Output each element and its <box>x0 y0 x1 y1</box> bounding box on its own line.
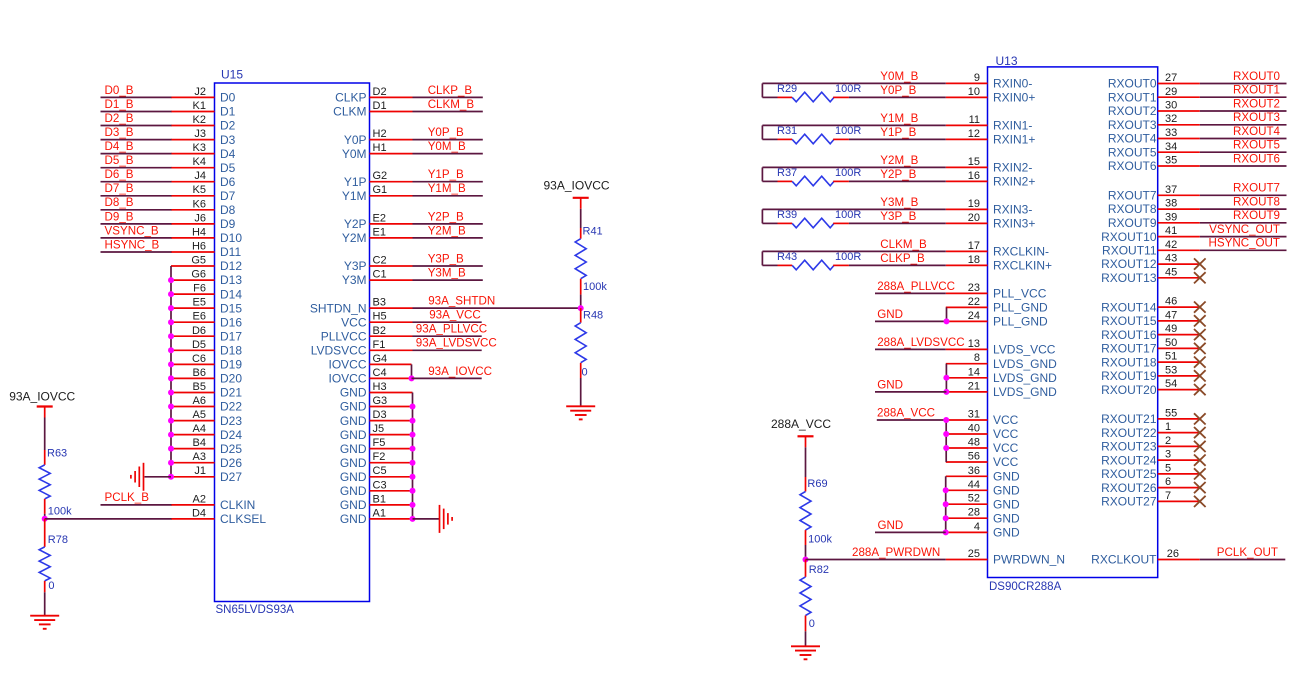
svg-text:K1: K1 <box>193 100 206 112</box>
U15 pin K6 (D8) <box>171 198 236 217</box>
svg-text:37: 37 <box>1165 184 1177 196</box>
wire R41 to junction <box>580 295 582 309</box>
no-connect X on pin 54 <box>1194 384 1206 395</box>
U13 pin 11 (RXIN1-) <box>946 114 1033 133</box>
U13 pin 19 (RXIN3-) <box>946 198 1033 217</box>
U15 pin D5 (D18) <box>171 339 242 358</box>
wire R69 to junction <box>805 545 807 560</box>
svg-text:29: 29 <box>1165 86 1177 98</box>
resistor R43 100R <box>762 251 861 270</box>
svg-text:30: 30 <box>1165 100 1177 112</box>
svg-text:RXCLKOUT: RXCLKOUT <box>1091 553 1157 567</box>
svg-text:RXIN2-: RXIN2- <box>993 161 1032 175</box>
svg-text:PWRDWN_N: PWRDWN_N <box>993 553 1065 567</box>
wire net D6_B <box>101 181 172 183</box>
U13 pin 49 (RXOUT16) <box>1101 323 1200 342</box>
U15 pin D1 (CLKM) <box>333 100 412 119</box>
svg-text:D1: D1 <box>373 100 387 112</box>
resistor R48 0 <box>575 308 603 378</box>
svg-text:CLKSEL: CLKSEL <box>220 512 266 526</box>
U15 pin C1 (Y3M) <box>342 269 413 288</box>
svg-text:IOVCC: IOVCC <box>328 372 366 386</box>
svg-text:H5: H5 <box>373 311 387 323</box>
svg-text:R39: R39 <box>777 209 797 221</box>
resistor R69 100k <box>800 477 832 546</box>
svg-text:26: 26 <box>1167 548 1179 560</box>
svg-text:F5: F5 <box>373 437 386 449</box>
svg-text:RXOUT9: RXOUT9 <box>1108 216 1157 230</box>
U13 pin 13 (LVDS_VCC) <box>946 338 1056 357</box>
svg-text:H2: H2 <box>373 128 387 140</box>
wire net D7_B <box>101 195 172 197</box>
svg-text:9: 9 <box>974 72 980 84</box>
svg-text:45: 45 <box>1165 266 1177 278</box>
U15 pin H2 (Y0P) <box>344 128 413 147</box>
wire net Y3M_B <box>762 208 945 210</box>
wire net D3_B <box>101 139 172 141</box>
U15 pin E6 (D16) <box>171 311 242 330</box>
svg-text:A6: A6 <box>193 395 206 407</box>
U15 pin C4 (IOVCC) <box>328 367 411 386</box>
no-connect X on pin 55 <box>1194 413 1206 424</box>
svg-text:RXOUT1: RXOUT1 <box>1233 84 1280 97</box>
svg-text:RXOUT25: RXOUT25 <box>1101 467 1157 481</box>
svg-text:18: 18 <box>968 254 980 266</box>
U15 pin C2 (Y3P) <box>344 255 413 274</box>
svg-text:D3: D3 <box>220 133 236 147</box>
no-connect X on pin 2 <box>1194 441 1206 452</box>
svg-text:R69: R69 <box>807 478 827 490</box>
U13 pin 56 (VCC) <box>946 451 1019 470</box>
U13 pin 3 (RXOUT24) <box>1101 449 1200 468</box>
no-connect X on pin 45 <box>1194 272 1206 283</box>
svg-text:10: 10 <box>968 86 980 98</box>
U15 pin E2 (Y2P) <box>344 212 413 231</box>
svg-text:Y0M_B: Y0M_B <box>428 140 466 153</box>
wire: U15 GND bus <box>412 393 414 519</box>
resistor R82 0 <box>800 560 829 632</box>
wire net RXOUT2 <box>1200 110 1287 112</box>
svg-text:A2: A2 <box>193 493 206 505</box>
U13 pin 47 (RXOUT15) <box>1101 309 1200 328</box>
U13 pin 22 (PLL_GND) <box>946 296 1048 315</box>
svg-text:RXOUT8: RXOUT8 <box>1233 196 1280 209</box>
svg-text:RXOUT18: RXOUT18 <box>1101 355 1157 369</box>
U13 pin 45 (RXOUT13) <box>1101 266 1200 285</box>
svg-text:RXOUT1: RXOUT1 <box>1108 91 1157 105</box>
svg-text:GND: GND <box>340 400 367 414</box>
svg-text:GND: GND <box>340 414 367 428</box>
svg-text:LVDSVCC: LVDSVCC <box>311 344 367 358</box>
svg-text:288A_PWRDWN: 288A_PWRDWN <box>852 546 940 559</box>
svg-text:RXOUT6: RXOUT6 <box>1108 159 1157 173</box>
no-connect X on pin 1 <box>1194 427 1206 438</box>
svg-text:E6: E6 <box>193 311 206 323</box>
svg-text:D5_B: D5_B <box>105 154 134 167</box>
svg-text:Y0P_B: Y0P_B <box>428 126 464 139</box>
ground symbol (left of U15) <box>131 463 144 491</box>
wire net D8_B <box>101 209 172 211</box>
U15 pin F2 (GND) <box>340 451 413 470</box>
no-connect X on pin 49 <box>1194 329 1206 340</box>
wire net D4_B <box>101 153 172 155</box>
svg-text:D7: D7 <box>220 189 236 203</box>
svg-text:RXOUT12: RXOUT12 <box>1101 257 1157 271</box>
svg-text:Y2M_B: Y2M_B <box>880 154 918 167</box>
svg-text:46: 46 <box>1165 296 1177 308</box>
svg-text:LVDS_GND: LVDS_GND <box>993 385 1057 399</box>
U15 pin G2 (Y1P) <box>344 170 413 189</box>
wire net RXOUT7 <box>1200 194 1287 196</box>
svg-text:RXIN0-: RXIN0- <box>993 77 1032 91</box>
U15 pin J1 (D27) <box>171 465 242 484</box>
wire net RXOUT6 <box>1200 165 1287 167</box>
svg-text:RXOUT4: RXOUT4 <box>1108 132 1157 146</box>
svg-text:4: 4 <box>974 521 980 533</box>
wire net Y1P_B <box>849 138 946 140</box>
U15 pin J2 (D0) <box>171 86 236 105</box>
wire: U15 unused-input bus (D12..D27 tie) <box>170 266 172 477</box>
U13 pin 48 (VCC) <box>946 437 1019 456</box>
svg-text:B6: B6 <box>193 367 206 379</box>
svg-text:D25: D25 <box>220 442 242 456</box>
svg-text:LVDS_VCC: LVDS_VCC <box>993 343 1056 357</box>
svg-text:17: 17 <box>968 240 980 252</box>
svg-text:K2: K2 <box>193 114 206 126</box>
svg-text:RXIN0+: RXIN0+ <box>993 91 1035 105</box>
svg-text:H3: H3 <box>373 381 387 393</box>
svg-text:G6: G6 <box>191 269 206 281</box>
svg-text:93A_LVDSVCC: 93A_LVDSVCC <box>416 337 497 350</box>
svg-text:Y1M_B: Y1M_B <box>880 112 918 125</box>
svg-text:D15: D15 <box>220 301 242 315</box>
U15 pin G6 (D13) <box>171 269 242 288</box>
svg-text:R78: R78 <box>48 534 68 546</box>
wire net Y0P_B <box>413 139 483 141</box>
svg-text:GND: GND <box>877 308 903 321</box>
wire power to R69 <box>805 447 807 477</box>
svg-text:31: 31 <box>968 409 980 421</box>
svg-text:RXOUT3: RXOUT3 <box>1233 111 1280 124</box>
U13 pin 35 (RXOUT6) <box>1108 155 1200 174</box>
wire net Y0M_B <box>762 82 945 84</box>
wire power to R63 <box>44 418 46 451</box>
U13 pin 8 (LVDS_GND) <box>946 352 1057 371</box>
no-connect X on pin 53 <box>1194 370 1206 381</box>
svg-text:RXOUT6: RXOUT6 <box>1233 152 1280 165</box>
svg-text:32: 32 <box>1165 113 1177 125</box>
wire R78 to ground <box>44 592 46 615</box>
U13 pin 44 (GND) <box>946 479 1020 498</box>
svg-text:RXOUT13: RXOUT13 <box>1101 271 1157 285</box>
U15 pin C5 (GND) <box>340 465 413 484</box>
U13 pin 16 (RXIN2+) <box>946 170 1036 189</box>
svg-text:B2: B2 <box>373 325 386 337</box>
svg-text:Y3P_B: Y3P_B <box>880 210 916 223</box>
U13 pin 17 (RXCLKIN-) <box>946 240 1049 259</box>
U15 pin K2 (D2) <box>171 114 236 133</box>
svg-text:22: 22 <box>968 296 980 308</box>
svg-text:100R: 100R <box>835 83 861 95</box>
U13 pin 18 (RXCLKIN+) <box>946 254 1052 273</box>
svg-text:D19: D19 <box>220 358 242 372</box>
svg-text:93A_IOVCC: 93A_IOVCC <box>9 390 75 404</box>
wire net D5_B <box>101 167 172 169</box>
svg-text:R29: R29 <box>777 83 797 95</box>
IC U15 SN65LVDS93A body <box>215 83 370 602</box>
wire net VSYNC_B <box>101 237 172 239</box>
U13 pin 10 (RXIN0+) <box>946 86 1036 105</box>
svg-text:49: 49 <box>1165 323 1177 335</box>
U13 pin 50 (RXOUT17) <box>1101 337 1200 356</box>
svg-text:15: 15 <box>968 156 980 168</box>
U13 pin 26 (RXCLKOUT) <box>1091 548 1200 567</box>
U15 pin G5 (D12) <box>171 255 242 274</box>
svg-text:100k: 100k <box>48 505 72 517</box>
wire net GND (LVDS_GND) <box>875 391 946 393</box>
svg-text:PCLK_OUT: PCLK_OUT <box>1217 546 1278 559</box>
wire to ground at pin J1/D27 <box>145 476 172 478</box>
svg-text:47: 47 <box>1165 309 1177 321</box>
svg-text:CLKM_B: CLKM_B <box>428 98 475 111</box>
svg-text:Y2P_B: Y2P_B <box>880 168 916 181</box>
junction dot at pin 24 <box>944 318 950 324</box>
wire net RXOUT4 <box>1200 138 1287 140</box>
svg-text:C2: C2 <box>373 255 387 267</box>
U13 pin 1 (RXOUT22) <box>1101 421 1200 440</box>
svg-text:RXOUT10: RXOUT10 <box>1101 230 1157 244</box>
svg-text:RXOUT23: RXOUT23 <box>1101 440 1157 454</box>
wire net 93A_VCC <box>413 321 482 323</box>
svg-text:K5: K5 <box>193 184 206 196</box>
U15 pin C6 (D19) <box>171 353 242 372</box>
wire junction to CLKSEL <box>45 518 172 520</box>
U13 pin 38 (RXOUT8) <box>1108 198 1200 217</box>
junction node 93A_SHTDN/R41/R48 <box>578 305 584 311</box>
U13 pin 39 (RXOUT9) <box>1108 211 1200 230</box>
wire R82 to ground <box>805 631 807 646</box>
svg-text:RXOUT20: RXOUT20 <box>1101 383 1157 397</box>
svg-text:D13: D13 <box>220 273 242 287</box>
junction dot at pin 52 <box>943 501 949 507</box>
svg-text:Y1M_B: Y1M_B <box>428 182 466 195</box>
junction node at R63/R78/CLKSEL <box>42 516 48 522</box>
svg-text:54: 54 <box>1165 378 1177 390</box>
junction dot at pin 21 <box>943 389 949 395</box>
U13 pin 30 (RXOUT2) <box>1108 100 1200 119</box>
svg-text:RXIN1-: RXIN1- <box>993 119 1032 133</box>
wire net Y2P_B <box>413 223 483 225</box>
svg-text:A1: A1 <box>373 507 386 519</box>
svg-text:93A_VCC: 93A_VCC <box>429 309 481 322</box>
U15 pin H3 (GND) <box>340 381 413 400</box>
wire net CLKM_B <box>762 250 945 252</box>
svg-text:Y3M_B: Y3M_B <box>428 266 466 279</box>
U15 pin A1 (GND) <box>340 507 413 526</box>
svg-text:B3: B3 <box>373 297 386 309</box>
junction dot at pin 48 <box>943 445 949 451</box>
wire net Y3P_B <box>849 222 946 224</box>
svg-text:C1: C1 <box>373 269 387 281</box>
svg-text:R31: R31 <box>777 125 797 137</box>
svg-text:100R: 100R <box>835 167 861 179</box>
svg-text:GND: GND <box>993 484 1020 498</box>
svg-text:RXCLKIN-: RXCLKIN- <box>993 245 1049 259</box>
svg-text:13: 13 <box>968 338 980 350</box>
svg-text:G5: G5 <box>191 255 206 267</box>
junction dot at pin 28 <box>943 515 949 521</box>
svg-text:D8: D8 <box>220 203 236 217</box>
svg-text:D22: D22 <box>220 400 242 414</box>
svg-text:D7_B: D7_B <box>105 182 134 195</box>
svg-text:RXIN3-: RXIN3- <box>993 203 1032 217</box>
svg-text:RXOUT9: RXOUT9 <box>1233 209 1280 222</box>
svg-text:D6_B: D6_B <box>105 168 134 181</box>
svg-text:D3_B: D3_B <box>105 126 134 139</box>
no-connect X on pin 7 <box>1194 496 1206 507</box>
svg-text:VSYNC_OUT: VSYNC_OUT <box>1209 223 1280 236</box>
ground symbol (below R78) <box>30 616 59 629</box>
U15 pin H6 (D11) <box>171 241 241 260</box>
wire net D9_B <box>101 223 172 225</box>
svg-text:40: 40 <box>968 423 980 435</box>
U15 pin B1 (GND) <box>340 493 413 512</box>
svg-text:41: 41 <box>1165 225 1177 237</box>
svg-text:RXOUT17: RXOUT17 <box>1101 342 1157 356</box>
svg-text:J3: J3 <box>194 128 206 140</box>
svg-text:D18: D18 <box>220 344 242 358</box>
U15 pin J3 (D3) <box>171 128 236 147</box>
wire net CLKP_B <box>413 96 483 98</box>
wire tying G4 to C4 <box>411 364 413 378</box>
junction node 288A_PWRDWN <box>803 557 809 563</box>
U15 pin K1 (D1) <box>171 100 236 119</box>
svg-text:VCC: VCC <box>993 413 1019 427</box>
svg-text:D14: D14 <box>220 287 242 301</box>
svg-text:GND: GND <box>993 511 1020 525</box>
svg-text:VCC: VCC <box>993 441 1019 455</box>
svg-text:K4: K4 <box>193 156 206 168</box>
svg-text:H6: H6 <box>192 241 206 253</box>
svg-text:SHTDN_N: SHTDN_N <box>310 301 367 315</box>
resistor R31 100R <box>762 125 861 144</box>
svg-text:J2: J2 <box>194 86 206 98</box>
svg-text:CLKM: CLKM <box>333 105 366 119</box>
svg-text:RXOUT27: RXOUT27 <box>1101 495 1157 509</box>
svg-text:E2: E2 <box>373 212 386 224</box>
svg-text:19: 19 <box>968 198 980 210</box>
svg-text:RXOUT7: RXOUT7 <box>1233 182 1280 195</box>
wire Y1M_B down to R31 <box>761 125 763 139</box>
svg-text:24: 24 <box>968 310 980 322</box>
wire net D0_B <box>101 96 172 98</box>
svg-text:Y0P: Y0P <box>344 133 367 147</box>
wire tying pins 36,44,52,28,4 (GND) <box>945 476 947 532</box>
wire net 288A_PLLVCC <box>875 292 946 294</box>
svg-text:R48: R48 <box>583 310 603 322</box>
svg-text:DS90CR288A: DS90CR288A <box>989 581 1062 593</box>
U13 pin 27 (RXOUT0) <box>1108 72 1200 91</box>
resistor R78 0 <box>39 519 68 593</box>
svg-text:RXOUT7: RXOUT7 <box>1108 189 1157 203</box>
power symbol 93A_IOVCC (left rail) <box>9 390 75 418</box>
U13 pin 43 (RXOUT12) <box>1101 253 1200 272</box>
svg-text:23: 23 <box>968 282 980 294</box>
svg-text:C3: C3 <box>373 479 387 491</box>
svg-text:39: 39 <box>1165 211 1177 223</box>
wire net Y3P_B <box>413 265 483 267</box>
U15 pin B4 (D25) <box>171 437 242 456</box>
wire net 93A_PLLVCC <box>413 335 482 337</box>
svg-text:GND: GND <box>340 386 367 400</box>
svg-text:RXOUT5: RXOUT5 <box>1108 145 1157 159</box>
wire net Y0M_B <box>413 153 483 155</box>
svg-text:Y2M_B: Y2M_B <box>428 224 466 237</box>
svg-text:Y0M_B: Y0M_B <box>880 70 918 83</box>
svg-text:LVDS_GND: LVDS_GND <box>993 371 1057 385</box>
U13 pin 42 (RXOUT11) <box>1102 239 1200 258</box>
no-connect X on pin 46 <box>1194 302 1206 313</box>
power symbol 93A_IOVCC (above R41) <box>544 178 610 209</box>
svg-text:RXOUT22: RXOUT22 <box>1101 426 1157 440</box>
wire R48 to ground <box>580 378 582 406</box>
wire net GND (PLL_GND) <box>875 320 947 322</box>
U13 pin 20 (RXIN3+) <box>946 212 1036 231</box>
wire net Y2M_B <box>762 166 945 168</box>
resistor R37 100R <box>762 167 861 186</box>
wire net RXOUT5 <box>1200 151 1287 153</box>
svg-text:PLL_GND: PLL_GND <box>993 315 1048 329</box>
U13 pin 28 (GND) <box>946 507 1020 526</box>
junction dots on U15 GND bus <box>410 404 416 522</box>
svg-text:GND: GND <box>993 470 1020 484</box>
U15 pin B5 (D21) <box>171 381 242 400</box>
wire net GND (pin 4) <box>875 531 946 533</box>
no-connect X on pin 47 <box>1194 315 1206 326</box>
svg-text:Y3M_B: Y3M_B <box>880 196 918 209</box>
U15 pin F6 (D14) <box>171 283 242 302</box>
svg-text:Y0M: Y0M <box>342 147 367 161</box>
wire net 288A_VCC <box>877 419 946 421</box>
svg-text:GND: GND <box>340 456 367 470</box>
U15 pin J5 (GND) <box>340 423 413 442</box>
svg-text:7: 7 <box>1165 490 1171 502</box>
resistor R29 100R <box>762 83 861 102</box>
U13 pin 21 (LVDS_GND) <box>946 380 1057 399</box>
U13 pin 24 (PLL_GND) <box>946 310 1048 329</box>
U15 pin G4 (IOVCC) <box>328 353 411 372</box>
svg-text:D1: D1 <box>220 105 236 119</box>
svg-text:2: 2 <box>1165 435 1171 447</box>
svg-text:J6: J6 <box>194 212 206 224</box>
U13 pin 53 (RXOUT19) <box>1101 364 1200 383</box>
svg-text:93A_IOVCC: 93A_IOVCC <box>428 365 492 378</box>
U15 pin K5 (D7) <box>171 184 236 203</box>
svg-text:D23: D23 <box>220 414 242 428</box>
svg-text:Y3M: Y3M <box>342 273 367 287</box>
junction dot at pin 31 <box>943 417 949 423</box>
svg-text:J1: J1 <box>194 465 206 477</box>
U15 pin B3 (SHTDN_N) <box>310 297 413 316</box>
svg-text:PLL_GND: PLL_GND <box>993 301 1048 315</box>
junction dot at pin 14 <box>943 375 949 381</box>
wire CLKM_B down to R43 <box>761 251 763 265</box>
no-connect X on pin 5 <box>1194 468 1206 479</box>
junction dots on unused-input bus <box>168 277 174 480</box>
svg-text:100k: 100k <box>583 281 607 293</box>
U15 pin E1 (Y2M) <box>342 226 413 245</box>
svg-text:0: 0 <box>48 580 54 592</box>
